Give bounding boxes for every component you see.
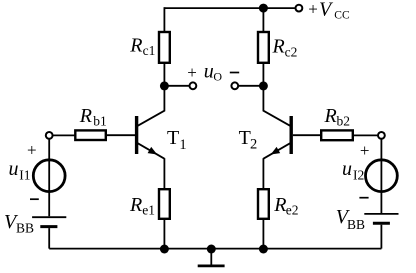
terminal uo+ [190, 82, 197, 89]
transistor T2 base bar [290, 116, 293, 154]
wire T2 emitter to Re2 [262, 158, 264, 189]
resistor Re1 [159, 189, 170, 219]
label - of ui1 [30, 198, 39, 200]
svg-text:+: + [360, 141, 370, 160]
label Rc1 [129, 34, 155, 58]
wire Re2 to ground rail [262, 219, 264, 249]
battery VBB left short plate [40, 225, 57, 228]
node rail-Re1 junction [160, 245, 169, 254]
svg-text:2: 2 [250, 137, 257, 153]
label ui2 [342, 158, 364, 182]
svg-text:1: 1 [179, 137, 186, 153]
svg-text:I1: I1 [19, 167, 30, 182]
svg-text:c2: c2 [285, 44, 298, 59]
source ui1 [33, 160, 65, 192]
label - of ui2 [359, 197, 368, 199]
wire Rc2 bottom to T2 collector [263, 63, 290, 126]
terminal uo- [231, 82, 238, 89]
wire VBB right to rail [380, 225, 382, 249]
svg-text:CC: CC [334, 9, 350, 21]
battery VBB right short plate [373, 222, 390, 225]
transistor T2 emitter with arrow [263, 143, 290, 159]
label + uo - [187, 61, 239, 84]
svg-text:+: + [27, 140, 37, 159]
label VBB right [336, 206, 365, 232]
label Re2 [273, 194, 298, 218]
wire output left [164, 85, 189, 87]
wire Re1 to ground rail [163, 219, 165, 249]
source ui2 [366, 160, 398, 192]
resistor Rc1 [159, 32, 170, 63]
wire Rc1 bottom to T1 collector [137, 63, 164, 126]
node rail-Re2 junction [259, 245, 268, 254]
svg-text:R: R [129, 194, 142, 216]
svg-text:R: R [272, 36, 285, 58]
terminal +Vcc [296, 5, 303, 12]
resistor Rc2 [258, 32, 269, 63]
ground [198, 249, 225, 266]
svg-text:b1: b1 [93, 114, 107, 129]
label T2 [239, 127, 258, 153]
wire T2 base [293, 134, 321, 136]
terminal input 1 [46, 132, 53, 139]
label VBB left [4, 211, 34, 235]
label +Vcc [308, 0, 350, 21]
label Re1 [129, 194, 155, 218]
wire bottom rail [49, 248, 381, 250]
battery VBB right long plate [364, 213, 398, 215]
resistor Rb2 [321, 130, 353, 140]
terminal input 2 [378, 132, 385, 139]
svg-text:R: R [324, 105, 337, 127]
svg-text:R: R [129, 34, 142, 56]
label Rb1 [79, 105, 107, 129]
wire T1 base [106, 134, 135, 136]
svg-text:I2: I2 [353, 167, 364, 182]
svg-text:e2: e2 [286, 203, 299, 218]
node rail-ground junction [207, 245, 216, 254]
wire Rc1 top stub [163, 7, 165, 32]
wire output right [238, 85, 263, 87]
transistor T1 emitter with arrow [137, 143, 164, 159]
label T1 [167, 127, 187, 153]
svg-text:+: + [187, 63, 197, 82]
wire input 1 [52, 134, 75, 136]
svg-text:u: u [9, 158, 19, 180]
resistor Rb1 [75, 130, 106, 140]
label Rc2 [272, 36, 298, 60]
svg-text:R: R [79, 105, 92, 127]
wire input 2 [353, 134, 378, 136]
node junction top rail at Rc2 [259, 4, 268, 13]
battery VBB left long plate [32, 216, 66, 218]
wire VBB left to rail [48, 228, 50, 249]
svg-text:u: u [342, 158, 352, 180]
transistor T1 base bar [135, 116, 138, 154]
svg-text:e1: e1 [142, 203, 155, 218]
node T2 collector output junction [259, 81, 268, 90]
wire input 2 column [380, 139, 382, 213]
svg-text:b2: b2 [337, 114, 351, 129]
wire input 1 column [48, 139, 50, 217]
svg-text:R: R [273, 194, 286, 216]
svg-text:c1: c1 [143, 43, 156, 58]
svg-text:T: T [167, 127, 179, 149]
svg-text:O: O [213, 69, 222, 83]
label ui1 [9, 158, 31, 182]
wire T1 emitter to Re1 [163, 158, 165, 189]
node T1 collector output junction [160, 81, 169, 90]
svg-text:u: u [204, 61, 214, 83]
svg-text:T: T [239, 127, 251, 149]
svg-text:BB: BB [16, 220, 34, 235]
svg-text:BB: BB [347, 217, 365, 232]
resistor Re2 [258, 189, 269, 219]
wire Rc2 top stub [262, 8, 264, 32]
label Rb2 [324, 105, 351, 129]
wire top rail [164, 7, 295, 9]
svg-text:+: + [308, 0, 318, 18]
